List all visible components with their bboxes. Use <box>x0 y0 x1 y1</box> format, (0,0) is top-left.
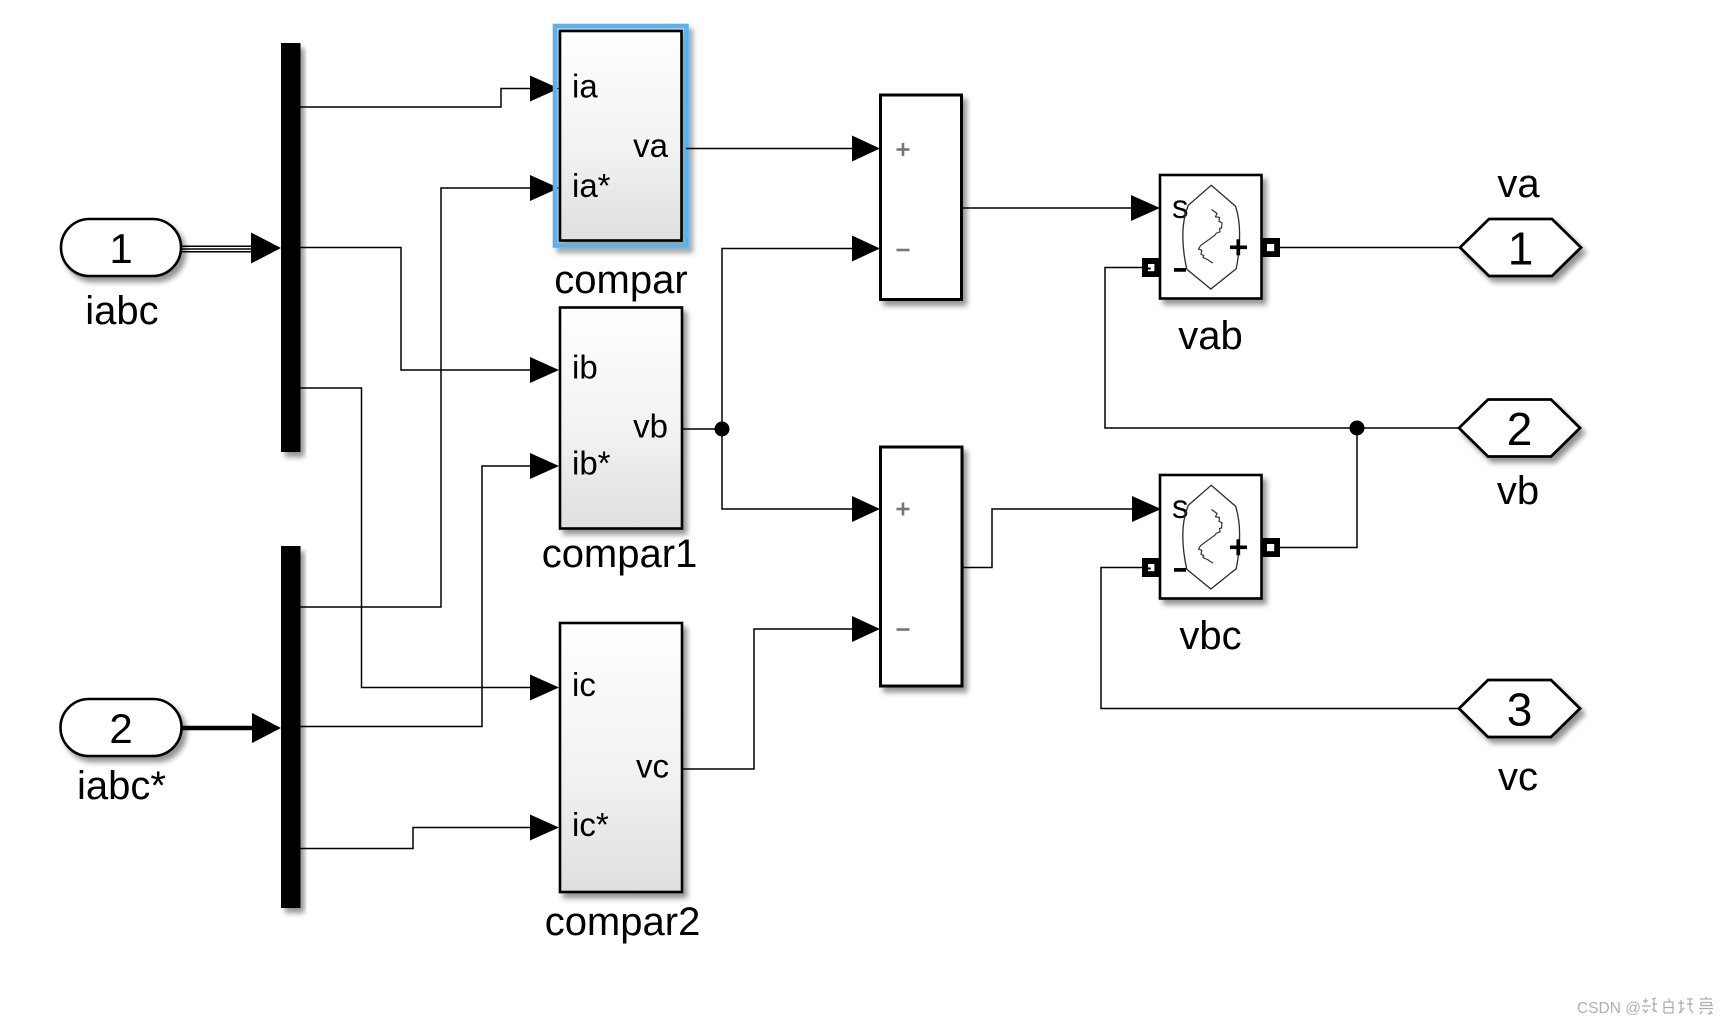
svg-text:vbc: vbc <box>1179 614 1241 658</box>
svg-text:vc: vc <box>1498 755 1538 799</box>
demux bar 2 <box>281 546 301 908</box>
junction dot vb <box>715 422 730 437</box>
vbc squiggle <box>1199 510 1223 564</box>
wire compar2 vc to sum2 minus <box>682 629 853 769</box>
wire demux2 out2 to ib* <box>301 466 532 727</box>
sum1 minus sign <box>897 249 910 252</box>
wire vab minus to junction vb line <box>1105 268 1459 429</box>
vab blob outline <box>1183 185 1240 289</box>
svg-text:vc: vc <box>636 748 669 785</box>
arrowhead into demux2 <box>252 713 281 743</box>
vbc plus sign (bold) <box>1230 539 1247 555</box>
vbc blob outline <box>1183 485 1240 589</box>
wire iabc to demux1 (triple vector line) <box>182 246 256 251</box>
wire demux1 out3 to ic <box>301 388 532 688</box>
svg-text:compar1: compar1 <box>542 532 698 576</box>
svg-text:ic*: ic* <box>572 806 609 843</box>
svg-text:compar2: compar2 <box>545 900 701 944</box>
sum2 plus sign <box>897 503 910 516</box>
svg-text:ib: ib <box>572 349 598 386</box>
svg-text:iabc: iabc <box>85 289 158 333</box>
subsystem compar (selected) <box>555 26 687 246</box>
arrowhead into demux1 <box>251 233 281 264</box>
wire vbc minus to outport 3 <box>1101 568 1459 709</box>
svg-text:1: 1 <box>1508 222 1534 274</box>
outport 3 (vc) <box>1459 680 1580 737</box>
wire iabc* to demux2 (thick line) <box>182 726 256 730</box>
junction dot vb line <box>1350 421 1365 436</box>
demux bar 1 <box>281 43 301 452</box>
outport 1 (va) <box>1460 219 1581 276</box>
wire vbc plus up to junction <box>1280 428 1357 548</box>
inport 2 (iabc*) <box>61 699 182 756</box>
wire junction up to sum1 minus <box>722 249 853 430</box>
svg-text:va: va <box>1497 162 1540 206</box>
svg-text:3: 3 <box>1507 683 1533 735</box>
wire compar va to sum1 plus <box>686 148 853 150</box>
wire junction down to sum2 plus <box>722 429 853 509</box>
voltage source block vab <box>1160 175 1262 299</box>
wire demux2 out3 to ic* <box>301 828 532 849</box>
sum1 plus sign <box>897 143 910 156</box>
svg-text:2: 2 <box>109 705 132 752</box>
vab plus port square <box>1262 238 1281 257</box>
wire demux1 out2 to ib <box>301 248 532 371</box>
svg-text:1: 1 <box>109 225 132 272</box>
svg-text:s: s <box>1172 488 1189 525</box>
svg-text:ia: ia <box>572 68 598 105</box>
subsystem compar2 <box>560 623 682 892</box>
vab minus port square <box>1142 258 1161 277</box>
watermark CJK glyphs <box>1642 997 1713 1015</box>
sum2 minus sign <box>897 628 910 631</box>
sum block 1 <box>881 95 962 300</box>
wire compar1 vb to junction <box>682 428 722 430</box>
svg-text:ic: ic <box>572 666 596 703</box>
svg-text:iabc*: iabc* <box>77 764 166 808</box>
wire vab plus to outport 1 <box>1280 247 1460 249</box>
svg-text:vb: vb <box>633 408 668 445</box>
vbc minus port square <box>1142 558 1161 577</box>
svg-text:va: va <box>633 127 669 164</box>
outport 2 (vb) <box>1459 400 1580 457</box>
svg-text:vab: vab <box>1178 314 1243 358</box>
wire sum2 to vbc s <box>962 509 1133 568</box>
svg-text:ib*: ib* <box>572 445 611 482</box>
wire demux2 out1 to ia* <box>301 188 532 607</box>
vbc plus port square <box>1262 538 1281 557</box>
svg-text:s: s <box>1172 188 1189 225</box>
wire sum1 to vab s <box>962 207 1133 209</box>
svg-text:vb: vb <box>1497 469 1539 513</box>
svg-text:CSDN @: CSDN @ <box>1577 1000 1641 1017</box>
inport 1 (iabc) <box>61 219 181 276</box>
svg-text:compar: compar <box>554 258 687 302</box>
voltage source block vbc <box>1160 475 1262 599</box>
svg-text:2: 2 <box>1507 403 1533 455</box>
vab plus sign (bold) <box>1230 239 1247 255</box>
vab squiggle <box>1199 210 1223 264</box>
svg-text:ia*: ia* <box>572 167 611 204</box>
vbc minus sign (bold) <box>1174 568 1186 572</box>
sum block 2 <box>881 447 963 686</box>
wire demux1 out1 to ia <box>301 89 532 108</box>
vab minus sign (bold) <box>1174 268 1186 272</box>
subsystem compar1 <box>560 308 682 529</box>
